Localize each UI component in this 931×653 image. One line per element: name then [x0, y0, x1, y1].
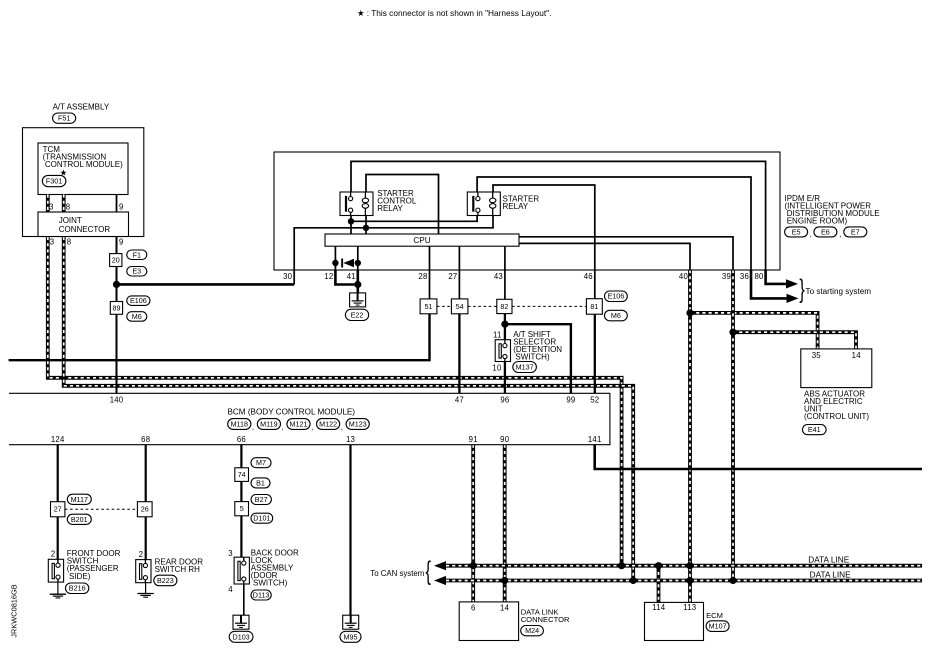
svg-text:M118: M118	[231, 420, 248, 429]
svg-text:M123: M123	[349, 420, 367, 429]
svg-text:CONNECTOR: CONNECTOR	[59, 225, 111, 234]
svg-text:10: 10	[492, 364, 502, 373]
svg-text:(CONTROL UNIT): (CONTROL UNIT)	[804, 412, 869, 421]
svg-text:B27: B27	[255, 495, 268, 504]
svg-text:,: ,	[282, 422, 284, 431]
svg-text:140: 140	[110, 396, 124, 405]
svg-text:5: 5	[240, 504, 244, 513]
svg-text:,: ,	[839, 230, 841, 239]
svg-text:6: 6	[471, 603, 476, 612]
svg-text:27: 27	[54, 505, 62, 514]
svg-text:RELAY: RELAY	[503, 202, 529, 211]
svg-text:ENGINE ROOM): ENGINE ROOM)	[785, 217, 848, 226]
svg-text:41: 41	[347, 272, 356, 281]
svg-text:M107: M107	[709, 622, 727, 631]
svg-text:113: 113	[683, 603, 696, 612]
svg-text:28: 28	[418, 272, 427, 281]
svg-text:54: 54	[456, 302, 464, 311]
svg-text:F301: F301	[46, 177, 62, 186]
svg-text:141: 141	[588, 435, 602, 444]
svg-text:9: 9	[119, 203, 124, 212]
svg-text:99: 99	[566, 396, 575, 405]
svg-text:M7: M7	[256, 458, 266, 467]
svg-text:89: 89	[113, 303, 121, 312]
svg-text:F1: F1	[133, 250, 141, 259]
svg-text:E106: E106	[130, 296, 147, 305]
svg-text:F51: F51	[58, 114, 70, 123]
svg-text:47: 47	[455, 396, 464, 405]
svg-text:SWITCH RH: SWITCH RH	[155, 565, 201, 574]
svg-text:M24: M24	[525, 626, 539, 635]
svg-text:M6: M6	[611, 311, 621, 320]
svg-text:E6: E6	[821, 227, 830, 236]
svg-text:2: 2	[51, 550, 56, 559]
svg-text:20: 20	[112, 256, 120, 265]
svg-text:26: 26	[141, 505, 149, 514]
svg-text:,: ,	[252, 422, 254, 431]
svg-text:46: 46	[584, 272, 593, 281]
svg-text:66: 66	[237, 435, 246, 444]
svg-text:9: 9	[119, 238, 124, 247]
svg-text:13: 13	[346, 435, 355, 444]
svg-text:M6: M6	[132, 312, 142, 321]
svg-text:{: {	[426, 555, 431, 585]
svg-text:JRKWC0816GB: JRKWC0816GB	[10, 584, 19, 637]
svg-text:DATA LINE: DATA LINE	[810, 570, 851, 579]
svg-text:B216: B216	[69, 584, 86, 593]
svg-text:3: 3	[228, 549, 233, 558]
svg-text:A/T ASSEMBLY: A/T ASSEMBLY	[53, 102, 110, 111]
svg-text:14: 14	[500, 603, 510, 612]
svg-text:CPU: CPU	[413, 236, 430, 245]
svg-text:12: 12	[324, 272, 333, 281]
svg-text:M117: M117	[71, 495, 88, 504]
svg-text:14: 14	[852, 351, 862, 360]
svg-text:E22: E22	[351, 310, 364, 319]
svg-text:BCM (BODY CONTROL MODULE): BCM (BODY CONTROL MODULE)	[228, 408, 356, 417]
svg-text:SWITCH): SWITCH)	[513, 352, 550, 361]
svg-text:E3: E3	[132, 267, 141, 276]
svg-text:40: 40	[679, 272, 689, 281]
svg-text:B1: B1	[256, 478, 265, 487]
svg-text:To starting system: To starting system	[806, 287, 872, 296]
svg-text:11: 11	[493, 330, 502, 339]
svg-text:82: 82	[500, 302, 508, 311]
svg-text:81: 81	[590, 302, 598, 311]
svg-text:124: 124	[51, 435, 65, 444]
svg-text:M137: M137	[516, 363, 534, 372]
svg-text:52: 52	[590, 396, 599, 405]
svg-text:90: 90	[500, 435, 510, 444]
svg-text:68: 68	[141, 435, 150, 444]
svg-text:D113: D113	[253, 591, 270, 600]
svg-text:30: 30	[283, 272, 293, 281]
svg-text:96: 96	[500, 396, 509, 405]
svg-text:91: 91	[469, 435, 478, 444]
svg-text:B223: B223	[157, 576, 174, 585]
svg-text:CONNECTOR: CONNECTOR	[521, 615, 570, 624]
svg-text:,: ,	[311, 422, 313, 431]
svg-text:B201: B201	[71, 515, 88, 524]
svg-text:JOINT: JOINT	[59, 216, 82, 225]
svg-text:4: 4	[228, 585, 233, 594]
svg-text:2: 2	[139, 550, 144, 559]
svg-text:}: }	[799, 273, 804, 303]
svg-text:8: 8	[67, 238, 72, 247]
svg-text:,: ,	[810, 230, 812, 239]
svg-text:SWITCH): SWITCH)	[251, 579, 288, 588]
svg-text:35: 35	[812, 351, 822, 360]
svg-text:DATA LINE: DATA LINE	[808, 555, 849, 564]
svg-text:74: 74	[238, 470, 246, 479]
svg-text:E106: E106	[608, 292, 625, 301]
svg-text:M121: M121	[290, 420, 308, 429]
svg-text:43: 43	[494, 272, 503, 281]
svg-text:51: 51	[425, 302, 433, 311]
svg-text:27: 27	[448, 272, 457, 281]
svg-text:E7: E7	[851, 227, 860, 236]
svg-text:36: 36	[740, 272, 749, 281]
svg-text:3: 3	[50, 238, 55, 247]
svg-text:,: ,	[341, 422, 343, 431]
svg-text:ECM: ECM	[706, 611, 723, 620]
svg-text:D103: D103	[233, 632, 250, 641]
svg-text:114: 114	[652, 603, 665, 612]
svg-text:CONTROL MODULE): CONTROL MODULE)	[43, 160, 123, 169]
svg-text:E41: E41	[808, 425, 821, 434]
svg-text:8: 8	[66, 203, 71, 212]
svg-text:SIDE): SIDE)	[67, 572, 91, 581]
svg-text:M119: M119	[260, 420, 277, 429]
svg-text:D101: D101	[253, 514, 270, 523]
svg-text:RELAY: RELAY	[377, 204, 403, 213]
svg-text:M122: M122	[319, 420, 337, 429]
svg-text:★ : This connector is not show: ★ : This connector is not shown in "Harn…	[357, 8, 551, 18]
svg-text:M95: M95	[344, 632, 358, 641]
svg-text:39: 39	[722, 272, 731, 281]
svg-text:80: 80	[755, 272, 765, 281]
svg-text:To CAN system: To CAN system	[370, 569, 424, 578]
svg-text:E5: E5	[792, 227, 801, 236]
svg-text:3: 3	[49, 203, 54, 212]
